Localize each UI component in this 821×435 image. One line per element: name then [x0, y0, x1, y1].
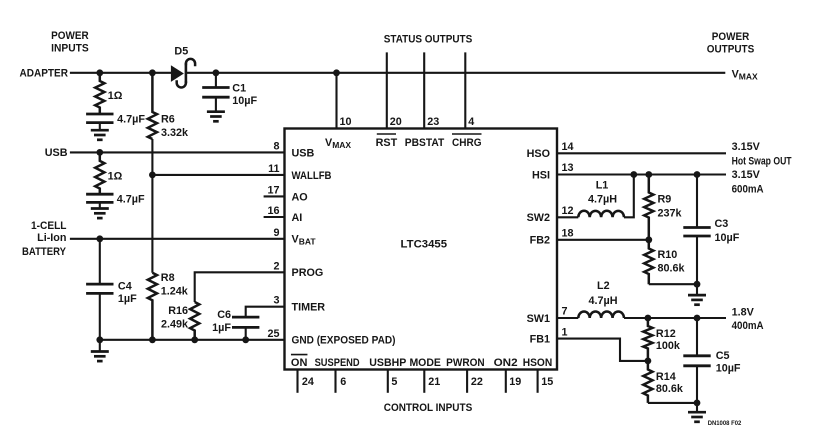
svg-text:3.32k: 3.32k: [161, 127, 189, 139]
svg-text:25: 25: [267, 328, 279, 340]
label L1: [596, 179, 609, 191]
wire: ground rail to pin 25: [100, 339, 285, 341]
svg-text:R6: R6: [161, 114, 175, 126]
svg-text:USB: USB: [292, 147, 315, 159]
pin label HSO: [527, 148, 550, 160]
pin label VMAX (top): [325, 137, 351, 150]
resistor R9: [644, 175, 653, 240]
label R12 value: [656, 340, 681, 352]
svg-text:600mA: 600mA: [732, 183, 764, 195]
pin number 7: [562, 306, 568, 318]
label R12: [656, 328, 676, 340]
pin label RST (top): [376, 134, 398, 149]
wire: FB1 pin 1 to divider: [557, 339, 648, 361]
pin number 22: [471, 376, 483, 388]
wire: R10 bottom to C3 ground node: [649, 283, 697, 285]
label 1ohm (usb): [108, 171, 123, 183]
capacitor C5: [683, 318, 710, 403]
svg-text:Hot Swap OUT: Hot Swap OUT: [732, 155, 792, 167]
pin label HSI: [532, 169, 550, 181]
capacitor 4.7uF (usb): [86, 194, 113, 202]
junction: FB1/R12/R14 node: [645, 358, 652, 365]
svg-text:VBAT: VBAT: [292, 234, 317, 247]
label R9 value: [658, 207, 683, 219]
junction: C6 at gnd rail: [242, 336, 249, 343]
svg-text:C1: C1: [232, 82, 246, 94]
wire: SW2 lead to L1: [557, 216, 578, 218]
svg-text:80.6k: 80.6k: [658, 263, 686, 275]
wire: HSO pin 14 output: [557, 152, 726, 154]
wire: pin 4 CHRG stub: [464, 52, 466, 128]
svg-text:19: 19: [509, 376, 521, 388]
resistor R14: [643, 361, 652, 403]
label D5: [174, 46, 188, 58]
svg-text:400mA: 400mA: [732, 320, 764, 332]
junction: R9 at HSI: [645, 171, 652, 178]
label R16: [168, 305, 188, 317]
svg-text:POWER: POWER: [51, 30, 89, 42]
pin number 25: [267, 328, 279, 340]
wire: AO stub pin 17: [264, 195, 285, 197]
svg-text:C5: C5: [716, 350, 730, 362]
svg-text:21: 21: [428, 376, 440, 388]
svg-text:18: 18: [562, 228, 574, 240]
label R14: [656, 371, 676, 383]
svg-text:ADAPTER: ADAPTER: [20, 67, 69, 79]
svg-text:AO: AO: [292, 191, 308, 203]
resistor R12: [643, 318, 652, 361]
svg-text:TIMER: TIMER: [292, 302, 326, 314]
pin number 1: [562, 326, 568, 338]
pin number 12: [562, 205, 574, 217]
node 1.8V 400mA output: [732, 307, 764, 333]
svg-text:HSON: HSON: [523, 357, 553, 369]
svg-text:100k: 100k: [656, 340, 681, 352]
resistor 1ohm (usb): [95, 152, 104, 194]
svg-text:SUSPEND: SUSPEND: [315, 357, 360, 369]
junction: C5 at 1.8V rail: [694, 315, 701, 322]
svg-text:237k: 237k: [658, 207, 683, 219]
junction: usb/1ohm branch: [96, 149, 103, 156]
pin label AI: [292, 212, 303, 224]
svg-text:10µF: 10µF: [716, 363, 741, 375]
svg-text:4.7µF: 4.7µF: [117, 193, 145, 205]
inductor L2: [578, 312, 624, 318]
node 3.15V hot swap output: [732, 141, 792, 168]
pin label FB1: [530, 334, 550, 346]
wire: R6 bottom to WALLFB node down to R8: [151, 139, 153, 273]
label C1: [232, 82, 246, 94]
wire: TIMER pin 3 to C6: [246, 307, 285, 317]
pin label ON (bottom): [291, 355, 308, 370]
capacitor C6: [232, 317, 259, 340]
svg-text:6: 6: [340, 376, 346, 388]
junction: adapter/1ohm branch: [96, 69, 103, 76]
wire: PROG pin 2 to R16: [195, 272, 285, 302]
svg-text:R14: R14: [656, 371, 676, 383]
svg-text:15: 15: [541, 376, 553, 388]
svg-text:RST: RST: [376, 137, 398, 149]
pin label FB2: [530, 235, 550, 247]
svg-text:R12: R12: [656, 328, 676, 340]
svg-text:5: 5: [391, 376, 397, 388]
pin number 9: [273, 227, 279, 239]
junction: battery/C4 branch: [96, 235, 103, 242]
svg-text:1Ω: 1Ω: [108, 171, 123, 183]
svg-text:80.6k: 80.6k: [656, 383, 684, 395]
junction: R16 at gnd rail: [191, 336, 198, 343]
svg-text:2: 2: [273, 260, 279, 272]
svg-text:20: 20: [390, 116, 402, 128]
svg-text:4.7µF: 4.7µF: [117, 113, 145, 125]
svg-text:9: 9: [273, 227, 279, 239]
pin number 3: [273, 295, 279, 307]
label L1 value: [588, 194, 617, 206]
pin number 23: [427, 116, 439, 128]
junction: L1 at HSI: [630, 171, 637, 178]
junction: R12 at 1.8V rail: [645, 315, 652, 322]
svg-text:R10: R10: [658, 249, 678, 261]
label C1 value: [232, 95, 257, 107]
pin number 16: [267, 205, 279, 217]
svg-text:22: 22: [471, 376, 483, 388]
junction: C3/R10 ground node: [694, 281, 701, 288]
pin number 5: [391, 376, 397, 388]
inductor L1: [578, 211, 624, 217]
label R10 value: [658, 263, 686, 275]
wire: L1 to HSI riser: [624, 175, 634, 218]
wire: ADAPTER rail segment (left of D5): [70, 72, 173, 74]
ground (usb input cap): [91, 202, 109, 218]
pin label HSON (bottom): [523, 357, 553, 369]
pin label MODE (bottom): [409, 357, 441, 369]
wire: VMAX top rail (D5 cathode to power output): [185, 72, 725, 74]
svg-text:Li-Ion: Li-Ion: [37, 232, 66, 244]
svg-text:VMAX: VMAX: [325, 137, 351, 150]
svg-text:C6: C6: [217, 309, 231, 321]
svg-text:11: 11: [268, 163, 279, 175]
svg-text:10µF: 10µF: [232, 95, 257, 107]
pin label GND (EXPOSED PAD): [292, 335, 396, 347]
svg-text:4: 4: [468, 116, 474, 128]
svg-text:R8: R8: [161, 272, 175, 284]
ground (1.8V output): [688, 403, 706, 422]
svg-text:LTC3455: LTC3455: [401, 238, 448, 250]
svg-text:PROG: PROG: [292, 267, 324, 279]
label 4.7uF (usb): [117, 193, 145, 205]
svg-text:ON: ON: [291, 357, 308, 369]
wire: bottom pin 24 stub: [296, 370, 298, 393]
svg-text:7: 7: [562, 306, 568, 318]
junction: R8 at gnd rail: [149, 336, 156, 343]
label 1ohm (adapter): [108, 90, 123, 102]
label C3: [715, 218, 729, 230]
label C3 value: [715, 232, 740, 244]
svg-text:4.7µH: 4.7µH: [588, 194, 617, 206]
svg-text:1µF: 1µF: [118, 293, 137, 305]
wire: FB2 pin 18 to divider: [557, 239, 649, 241]
svg-text:17: 17: [267, 184, 279, 196]
wire: bottom pin 15 stub: [537, 370, 539, 393]
pin number 14: [562, 141, 574, 153]
label R6: [161, 114, 175, 126]
label STATUS OUTPUTS: [384, 33, 473, 45]
wire: AI stub pin 16: [264, 216, 285, 218]
svg-text:INPUTS: INPUTS: [51, 42, 89, 54]
pin number 21: [428, 376, 440, 388]
node 3.15V 600mA output: [732, 169, 764, 195]
svg-text:SW1: SW1: [527, 313, 550, 325]
svg-text:STATUS OUTPUTS: STATUS OUTPUTS: [384, 33, 473, 45]
pin number 10: [340, 116, 352, 128]
junction: FB2/R9/R10 node: [645, 236, 652, 243]
pin number 8: [273, 141, 279, 153]
svg-text:R16: R16: [168, 305, 188, 317]
capacitor 4.7uF (adapter): [86, 114, 113, 123]
label USB input: [45, 147, 68, 159]
pin label PBSTAT (top): [405, 137, 445, 149]
svg-text:USB: USB: [45, 147, 68, 159]
pin number 24: [302, 376, 314, 388]
capacitor C1: [202, 73, 229, 97]
junction: WALLFB node: [149, 172, 156, 179]
op-amp/IC U1 LTC3455 body: [285, 129, 558, 370]
label R8: [161, 272, 175, 284]
label R10: [658, 249, 678, 261]
ground (C1): [207, 97, 225, 121]
svg-text:4.7µH: 4.7µH: [588, 295, 617, 307]
svg-text:10: 10: [340, 116, 352, 128]
wire: bottom pin 6 stub: [334, 370, 336, 393]
svg-text:OUTPUTS: OUTPUTS: [707, 44, 755, 56]
label CONTROL INPUTS: [384, 402, 473, 414]
wire: battery rail: [70, 238, 285, 240]
label DN1008 F02: [708, 420, 742, 427]
pin label PROG: [292, 267, 324, 279]
pin number 11: [268, 163, 279, 175]
svg-text:L2: L2: [597, 280, 610, 292]
ground (adapter input cap): [91, 123, 109, 140]
wire: pin 23 PBSTAT stub: [423, 52, 425, 128]
resistor R6: [148, 73, 157, 139]
label 4.7uF (adapter): [117, 113, 145, 125]
svg-text:3.15V: 3.15V: [732, 141, 761, 153]
svg-text:1µF: 1µF: [212, 322, 231, 334]
wire: pin 10 VMAX stub: [335, 73, 337, 129]
svg-text:WALLFB: WALLFB: [292, 170, 332, 182]
svg-text:8: 8: [273, 141, 279, 153]
svg-text:ON2: ON2: [494, 357, 518, 369]
svg-text:PBSTAT: PBSTAT: [405, 137, 445, 149]
wire: pin 20 RST stub: [386, 52, 388, 128]
pin label WALLFB: [292, 170, 332, 182]
label R9: [658, 194, 672, 206]
svg-text:L1: L1: [596, 179, 609, 191]
pin label AO: [292, 191, 308, 203]
pin label ON2 (bottom): [494, 357, 518, 369]
label R16 value: [161, 318, 189, 330]
label R8 value: [161, 286, 189, 298]
resistor 1ohm (adapter): [95, 73, 104, 114]
svg-text:BATTERY: BATTERY: [22, 246, 67, 258]
svg-text:MODE: MODE: [409, 357, 441, 369]
svg-text:DN1008 F02: DN1008 F02: [708, 420, 742, 427]
label L2: [597, 280, 610, 292]
svg-text:PWRON: PWRON: [446, 357, 485, 369]
svg-text:16: 16: [267, 205, 279, 217]
label R14 value: [656, 383, 684, 395]
label C6: [217, 309, 231, 321]
pin number 6: [340, 376, 346, 388]
pin number 18: [562, 228, 574, 240]
wire: HSI pin 13 rail: [557, 173, 726, 175]
junction: adapter/R6-D5 branch: [149, 69, 156, 76]
svg-text:R9: R9: [658, 194, 672, 206]
label POWER INPUTS: [51, 30, 89, 54]
wire: WALLFB to pin 11: [152, 174, 284, 176]
pin label VBAT: [292, 234, 317, 247]
pin label USB: [292, 147, 315, 159]
node VMAX output: [732, 68, 758, 81]
pin label SW2: [527, 212, 550, 224]
wire: bottom pin 21 stub: [423, 370, 425, 393]
pin number 13: [562, 162, 574, 174]
svg-text:C3: C3: [715, 218, 729, 230]
pin number 17: [267, 184, 279, 196]
label C5: [716, 350, 730, 362]
junction: VMAX pin drop: [333, 69, 340, 76]
svg-text:23: 23: [427, 116, 439, 128]
junction: C5/R14 ground node: [694, 400, 701, 407]
wire: USB rail: [70, 151, 285, 153]
svg-text:VMAX: VMAX: [732, 68, 758, 81]
svg-text:13: 13: [562, 162, 574, 174]
label LTC3455: [401, 238, 448, 250]
svg-text:CONTROL INPUTS: CONTROL INPUTS: [384, 402, 473, 414]
wire: R14 bottom to C5 ground node: [648, 402, 697, 404]
diode D5 cathode bar with schottky hooks: [177, 59, 195, 88]
svg-text:12: 12: [562, 205, 574, 217]
svg-text:1.24k: 1.24k: [161, 286, 189, 298]
label C5 value: [716, 363, 741, 375]
label C6 value: [212, 322, 231, 334]
pin number 15: [541, 376, 553, 388]
wire: SW1 lead to L2: [557, 317, 578, 319]
pin label CHRG (top): [452, 134, 482, 149]
resistor R16: [190, 302, 199, 340]
ground (main rail): [91, 340, 109, 361]
svg-text:SW2: SW2: [527, 212, 550, 224]
pin label TIMER: [292, 302, 326, 314]
label L2 value: [588, 295, 617, 307]
junction: C3 at HSI: [694, 171, 701, 178]
label C4: [118, 281, 132, 293]
svg-text:24: 24: [302, 376, 314, 388]
svg-text:1: 1: [562, 326, 568, 338]
label R6 value: [161, 127, 189, 139]
diode D5 (Schottky) anode triangle: [171, 65, 184, 82]
svg-text:C4: C4: [118, 281, 132, 293]
pin label SUSPEND (bottom): [315, 357, 360, 369]
svg-text:1Ω: 1Ω: [108, 90, 123, 102]
svg-text:CHRG: CHRG: [452, 137, 482, 149]
pin number 2: [273, 260, 279, 272]
wire: bottom pin 5 stub: [387, 370, 389, 393]
wire: bottom pin 22 stub: [466, 370, 468, 393]
pin number 20: [390, 116, 402, 128]
pin label PWRON (bottom): [446, 357, 485, 369]
label battery: [22, 220, 67, 258]
wire: L2 to 1.8V output: [624, 317, 726, 319]
resistor R10: [644, 240, 653, 284]
svg-text:POWER: POWER: [712, 31, 750, 43]
ground (3.15V output): [688, 284, 706, 305]
capacitor C4: [86, 239, 113, 340]
svg-text:GND (EXPOSED PAD): GND (EXPOSED PAD): [292, 335, 396, 347]
label ADAPTER: [20, 67, 69, 79]
svg-text:10µF: 10µF: [715, 232, 740, 244]
svg-text:USBHP: USBHP: [369, 357, 406, 369]
svg-text:AI: AI: [292, 212, 303, 224]
svg-text:FB2: FB2: [530, 235, 550, 247]
svg-text:3: 3: [273, 295, 279, 307]
pin label USBHP (bottom): [369, 357, 406, 369]
pin number 4: [468, 116, 474, 128]
svg-text:1.8V: 1.8V: [732, 307, 755, 319]
resistor R8: [148, 273, 157, 340]
svg-text:FB1: FB1: [530, 334, 550, 346]
junction: C4 at gnd rail: [96, 336, 103, 343]
svg-text:1-CELL: 1-CELL: [31, 220, 67, 232]
svg-text:HSI: HSI: [532, 169, 550, 181]
label C4 value: [118, 293, 137, 305]
junction: C1 at VMAX rail: [213, 69, 220, 76]
capacitor C3: [683, 175, 710, 285]
svg-text:HSO: HSO: [527, 148, 550, 160]
label POWER OUTPUTS: [707, 31, 755, 56]
svg-text:14: 14: [562, 141, 574, 153]
svg-text:3.15V: 3.15V: [732, 169, 761, 181]
svg-text:D5: D5: [174, 46, 188, 58]
svg-text:2.49k: 2.49k: [161, 318, 189, 330]
wire: bottom pin 19 stub: [505, 370, 507, 393]
pin label SW1: [527, 313, 550, 325]
pin number 19: [509, 376, 521, 388]
